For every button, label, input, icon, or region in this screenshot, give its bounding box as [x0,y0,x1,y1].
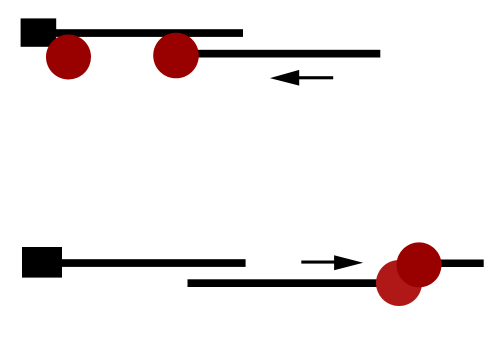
arrow A2 (pointing right) [301,255,363,270]
fluorophore F4 (upper-right dark-red circle, bottom assembly) [397,242,442,287]
fluorophore F2 (right dark-red circle, top assembly) [153,33,199,79]
square Q1 (top-left quencher block) [21,18,57,46]
wire: bottom strand 2 (lower, offset right) [188,279,418,287]
wire: top strand 2 (lower, offset right) [170,50,380,58]
wire: bottom-right short strand segment [415,260,484,268]
wire: bottom strand 1 (upper) [40,259,246,267]
square Q2 (bottom-left quencher block) [22,247,62,278]
wire: top strand 1 (upper) [38,29,243,37]
fluorophore F1 (left dark-red circle, top assembly) [46,35,91,80]
fluorophore F3 (lower-left lighter red circle, bottom assembly) [376,260,422,306]
arrow A1 (pointing left) [270,70,333,86]
